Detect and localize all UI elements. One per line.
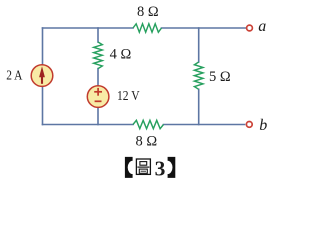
- svg-text:2 A: 2 A: [6, 68, 23, 83]
- svg-text:b: b: [259, 117, 267, 134]
- svg-text:8 Ω: 8 Ω: [137, 4, 159, 20]
- svg-text:5 Ω: 5 Ω: [209, 69, 231, 85]
- svg-text:8 Ω: 8 Ω: [136, 133, 158, 149]
- svg-text:4 Ω: 4 Ω: [110, 46, 132, 62]
- svg-text:12 V: 12 V: [117, 89, 140, 104]
- svg-text:3: 3: [155, 156, 166, 180]
- svg-text:a: a: [258, 18, 266, 35]
